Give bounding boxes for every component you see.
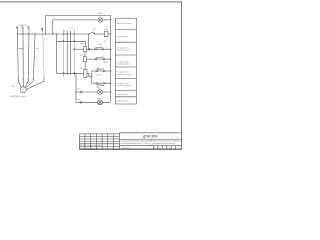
wire vertical rungA to rungB xyxy=(88,34,90,49)
junction dot line2 rail xyxy=(110,19,111,20)
svg-text:~380B 50Гц: ~380B 50Гц xyxy=(18,25,29,27)
svg-text:EL1: EL1 xyxy=(77,89,80,91)
svg-text:Разраб. Пров. Н.контр. Утв.: Разраб. Пров. Н.контр. Утв. xyxy=(80,148,100,150)
motor M1 circle xyxy=(20,87,26,93)
svg-text:HA1: HA1 xyxy=(98,12,102,15)
wire phase B vertical to motor xyxy=(22,34,24,79)
wire loop top branch xyxy=(92,70,111,72)
coil box3 KM1 xyxy=(83,70,87,78)
bottom cells verticals xyxy=(154,146,176,150)
svg-text:SB1: SB1 xyxy=(98,44,102,46)
svg-text:KM1: KM1 xyxy=(80,68,84,70)
drawing frame right border xyxy=(181,2,183,150)
svg-text:л.1: л.1 xyxy=(159,148,161,150)
terminal strip dashed left boundary xyxy=(63,30,65,77)
svg-text:KK1: KK1 xyxy=(80,55,83,57)
designation box borders xyxy=(119,133,181,149)
svg-text:A1: A1 xyxy=(104,40,106,43)
lamp HA1 on line 2 xyxy=(98,18,103,23)
terminal strip dashed right boundary xyxy=(73,30,75,77)
svg-text:1: 1 xyxy=(154,148,155,150)
contact KM1.2 circles on rung B xyxy=(95,47,104,50)
svg-text:HL1: HL1 xyxy=(97,88,100,90)
lamp HL1 xyxy=(98,90,103,95)
legend table frame xyxy=(115,18,136,104)
svg-text:Сигн. лампа: Сигн. лампа xyxy=(117,94,129,96)
svg-text:каб.: каб. xyxy=(36,48,40,50)
wire box3 to parallel loop jog xyxy=(87,73,92,77)
wire column box1 to box2 xyxy=(84,52,86,57)
wire right rail xyxy=(110,15,112,102)
svg-text:подачи заготовки: подачи заготовки xyxy=(117,74,132,76)
contact KK1.1 circles on rung C xyxy=(95,57,104,60)
wire PE vertical to motor xyxy=(43,32,45,79)
wire N vertical to motor xyxy=(33,34,35,79)
relay box2 on rung C xyxy=(84,57,87,62)
svg-text:M1: M1 xyxy=(12,86,15,88)
junction dots ladder xyxy=(75,49,111,93)
terminal X1 phase A xyxy=(16,27,17,34)
svg-text:SB2: SB2 xyxy=(96,68,100,70)
wire parallel loop left vertical xyxy=(91,71,93,83)
svg-text:1:1: 1:1 xyxy=(168,148,170,150)
designation divider xyxy=(119,139,181,141)
wire coil to rail xyxy=(108,33,111,35)
terminal circles on strip xyxy=(63,33,75,74)
wire lamp rung F xyxy=(76,101,111,103)
terminal hook at motor phase B xyxy=(22,79,23,81)
lamp HL2 xyxy=(98,100,103,105)
svg-text:Выключатель: Выключатель xyxy=(117,36,129,38)
revision grid horizontal lines xyxy=(79,137,119,147)
wire tap y40.3 through strip to box1 top xyxy=(57,41,86,46)
wire main bus and rung A through strip to coil xyxy=(18,33,90,35)
svg-text:AИP71A4 0,25кBт: AИP71A4 0,25кBт xyxy=(10,95,26,98)
terminal X1 phase C xyxy=(28,27,29,34)
junction dots on bus xyxy=(17,33,89,34)
svg-text:QF1: QF1 xyxy=(93,29,97,31)
coil KM1 on rung A xyxy=(104,31,108,37)
button SB2 contacts top branch xyxy=(96,69,105,72)
wire phase A vertical to motor xyxy=(17,34,20,79)
wire lamp feed vertical xyxy=(75,73,77,102)
svg-text:KM1.1: KM1.1 xyxy=(97,74,102,76)
terminal strip inner wire 2 xyxy=(70,31,72,75)
drawing frame top border xyxy=(0,1,182,3)
svg-text:Вводной автомат: Вводной автомат xyxy=(117,22,132,25)
revision grid outline xyxy=(79,134,119,149)
svg-text:ДЛИ-30М: ДЛИ-30М xyxy=(142,134,158,138)
wire rung B to rail xyxy=(86,48,110,50)
contact circle after box1 xyxy=(89,49,90,50)
schematic small labels xyxy=(10,12,108,101)
terminal hook at motor phase A xyxy=(17,79,18,81)
svg-text:пильного вала: пильного вала xyxy=(117,50,131,52)
title block bottom frame line xyxy=(79,148,182,150)
terminal hook at motor N xyxy=(32,79,33,81)
svg-text:XT1: XT1 xyxy=(69,28,72,30)
svg-text:SF1: SF1 xyxy=(81,44,84,46)
title block xyxy=(79,133,182,149)
svg-text:3~: 3~ xyxy=(22,91,24,93)
wire feed y73.3 vertical from bus xyxy=(57,34,84,73)
legend table row texts xyxy=(117,22,132,103)
cable marking tick xyxy=(19,48,24,50)
wire column box2 to box3 xyxy=(84,62,86,70)
svg-text:Сх. 1: Сх. 1 xyxy=(149,145,153,147)
svg-text:Лампа освещ.: Лампа освещ. xyxy=(117,101,130,103)
line above bottom cells xyxy=(119,145,181,147)
terminal X1 phase B xyxy=(22,27,23,34)
wire lamp rung E xyxy=(76,91,111,93)
terminal strip inner wire 1 xyxy=(66,31,68,75)
svg-text:насоса подъёма: насоса подъёма xyxy=(117,85,132,87)
wire motor leads converging xyxy=(18,81,44,90)
terminal PE xyxy=(41,28,42,31)
connector breaks on rung E xyxy=(81,91,82,93)
contact KM1.1 circles bottom branch xyxy=(96,82,105,85)
svg-text:EL2: EL2 xyxy=(77,99,80,101)
wire control line 2 with vertical tap xyxy=(53,20,111,34)
terminal hook PE at motor xyxy=(43,79,44,81)
svg-text:Копировал: Копировал xyxy=(122,148,130,150)
wire phase C vertical to motor xyxy=(27,34,30,79)
terminal hook at motor phase C xyxy=(27,79,28,81)
svg-text:строгального в.: строгального в. xyxy=(117,64,131,66)
connector breaks on rung F xyxy=(81,101,82,103)
switch QF1 on rung A xyxy=(89,32,104,34)
wire rung B through strip xyxy=(74,48,83,50)
wire rung C to rail xyxy=(86,58,110,60)
fuse box1 on rung B xyxy=(84,47,87,52)
svg-text:KM1: KM1 xyxy=(104,29,108,31)
wire control line 1 top xyxy=(46,15,111,34)
wire loop bottom branch xyxy=(92,82,111,84)
legend table row lines xyxy=(115,30,136,97)
title block description text xyxy=(80,140,180,150)
revision grid vertical lines xyxy=(85,134,114,149)
svg-text:KK1.1: KK1.1 xyxy=(103,62,108,64)
svg-text:HL2: HL2 xyxy=(97,98,100,100)
